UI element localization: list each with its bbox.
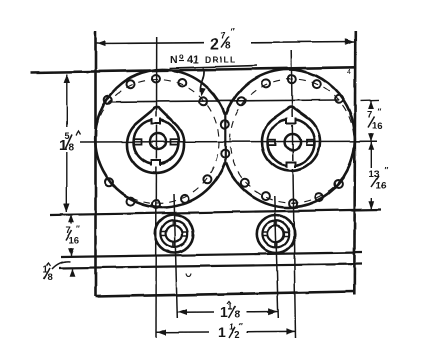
dimension line 1-1/8 xyxy=(178,308,279,315)
svg-text:8: 8 xyxy=(69,143,75,154)
note No 41 DRILL xyxy=(169,52,257,68)
dimension line 7/16 left xyxy=(68,215,74,257)
drill leader arrow xyxy=(200,68,206,97)
neck junction line xyxy=(224,114,226,164)
dimension 1/8 leader xyxy=(52,261,75,276)
label 1/8 xyxy=(43,263,53,283)
svg-text:16: 16 xyxy=(69,236,80,247)
svg-text:5: 5 xyxy=(65,131,70,141)
dimension lines right 7/16 13/16 xyxy=(356,100,381,210)
tiny mark u xyxy=(186,273,191,276)
right cam bore xyxy=(262,107,320,171)
right bearing centerline xyxy=(275,196,279,318)
dimension line 1-1/2 xyxy=(157,328,296,335)
label 2-7/8 xyxy=(210,27,236,53)
plate left edge xyxy=(94,31,97,297)
svg-text:7: 7 xyxy=(367,110,372,121)
svg-text:8: 8 xyxy=(48,272,53,283)
label 13/16 right xyxy=(369,166,389,192)
neck bolt holes xyxy=(221,120,229,157)
svg-text:DRILL: DRILL xyxy=(205,55,237,65)
label 1-5/8 xyxy=(59,131,81,154)
label 1-1/2 xyxy=(218,322,243,341)
svg-text:1: 1 xyxy=(218,324,226,340)
svg-text:4: 4 xyxy=(347,69,351,76)
horizontal centerline xyxy=(80,140,377,143)
band line upper xyxy=(61,253,362,258)
left flange circle xyxy=(95,70,225,208)
left bearing xyxy=(155,215,193,253)
right flange vertical centerline xyxy=(291,50,295,338)
svg-text:8: 8 xyxy=(235,310,241,321)
dimension line 1-5/8 xyxy=(64,74,70,213)
svg-text:o: o xyxy=(179,52,184,61)
left hub bore xyxy=(150,134,166,150)
svg-text:″: ″ xyxy=(385,166,389,175)
right flange circle xyxy=(226,70,355,208)
band line lower xyxy=(59,264,362,268)
right bearing xyxy=(257,215,295,253)
svg-text:41: 41 xyxy=(187,54,199,66)
svg-text:″: ″ xyxy=(76,225,80,234)
plate top edge xyxy=(30,67,355,72)
svg-text:8: 8 xyxy=(225,41,231,52)
bearing tangent line xyxy=(50,210,381,216)
left flange bolt holes xyxy=(104,75,211,209)
label 7/16 right xyxy=(367,108,383,132)
left flange vertical centerline xyxy=(155,37,158,338)
svg-text:2: 2 xyxy=(210,36,219,53)
plate bottom edge xyxy=(96,292,355,297)
svg-text:16: 16 xyxy=(376,181,387,192)
svg-text:7: 7 xyxy=(221,31,226,41)
hole chord line xyxy=(110,100,338,102)
right pitch circle (dashed) xyxy=(230,79,354,203)
svg-text:″: ″ xyxy=(231,27,236,37)
left bearing centerline xyxy=(174,194,177,318)
right flange bolt holes xyxy=(237,75,342,207)
left race ring xyxy=(134,117,179,167)
svg-text:″: ″ xyxy=(378,108,382,117)
label 7/16 left xyxy=(66,225,81,247)
svg-text:N: N xyxy=(170,54,178,66)
right hub bore xyxy=(285,134,301,150)
plate right edge xyxy=(354,31,355,295)
right race ring xyxy=(268,117,315,169)
left cam bore xyxy=(127,107,184,172)
dimension line 2-7/8 xyxy=(96,38,356,46)
svg-text:″: ″ xyxy=(239,322,243,331)
svg-text:7: 7 xyxy=(66,225,71,236)
label 1-1/8 xyxy=(220,302,241,321)
svg-text:16: 16 xyxy=(372,121,383,132)
left pitch circle (dashed) xyxy=(95,80,219,204)
svg-text:2: 2 xyxy=(235,330,241,341)
